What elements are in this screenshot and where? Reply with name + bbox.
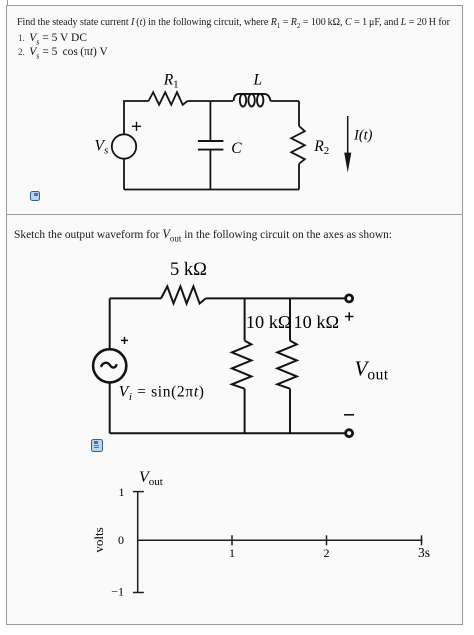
svg-text:2: 2 [324,546,330,560]
svg-text:0: 0 [118,533,124,547]
wire bottom [124,189,299,191]
voltage source Vs [112,134,136,158]
plus sign of Vs [132,122,141,131]
svg-text:volts: volts [91,527,106,552]
wire source to bottom-left corner [109,382,111,433]
problem 1 statement [17,17,467,30]
tick x=1 [231,535,233,545]
section divider [7,214,463,215]
svg-text:Vi = sin(2πt): Vi = sin(2πt) [119,384,205,404]
resistor 10k (right) [277,341,297,389]
wire right side down [298,101,300,126]
resistor 10k (left) [232,341,252,389]
tilde inside AC source [101,363,117,368]
plus sign at output [345,312,354,321]
resistor R2 [291,126,305,164]
wire resistor to top-right terminal [206,297,345,299]
svg-text:Vs: Vs [95,138,109,157]
wire resistor branch 2 top [289,299,291,341]
wire left side down to source [109,299,111,349]
stub of element above card [7,0,8,5]
wire R1 to node A [188,100,211,102]
tick y=1 [133,491,144,493]
wire resistor branch 1 bottom [244,389,246,434]
wire resistor branch 1 top [244,299,246,341]
wire resistor branch 2 bottom [289,389,291,434]
list item 2 [18,46,108,60]
wire bottom-left up to source [123,159,125,190]
wire node A to inductor [210,100,233,102]
tick x=2 [326,535,328,545]
wire R2 to bottom-right corner [298,164,300,190]
AC source Vi [93,349,126,382]
svg-text:Vout: Vout [139,469,163,488]
problem 2 statement [14,227,392,243]
capacitor C [198,141,224,150]
tick x=3 [421,535,423,545]
svg-text:Vout: Vout [355,356,389,383]
svg-text:I(t): I(t) [353,128,373,144]
terminal top-right [346,295,353,302]
svg-text:R2: R2 [313,138,329,157]
wire top-left (circuit 1) [124,101,149,134]
inductor L [234,94,271,107]
icon problem 2 [91,439,103,452]
tick y=-1 [133,592,144,594]
wire bottom [110,432,345,434]
wire capacitor to bottom [209,150,211,189]
svg-text:10 kΩ: 10 kΩ [294,312,340,332]
resistor R1 [149,92,188,105]
current arrow I(t) shaft [347,116,349,154]
svg-text:C: C [231,140,242,157]
graph x-axis [138,539,423,541]
minus sign at output [344,414,354,416]
wire inductor to top-right corner [271,100,300,102]
list item 1 [18,32,87,46]
current arrow I(t) head [344,153,351,173]
svg-text:L: L [253,72,263,89]
svg-text:5 kΩ: 5 kΩ [170,260,207,280]
wire node A down to capacitor [209,101,211,140]
terminal bottom-right [346,430,353,437]
svg-text:−1: −1 [111,585,124,599]
svg-text:R1: R1 [163,72,179,91]
svg-text:1: 1 [229,546,235,560]
svg-text:1: 1 [119,485,125,499]
svg-text:10 kΩ: 10 kΩ [246,312,292,332]
plus sign of Vi [121,337,128,344]
wire top-left (circuit 2) [110,297,161,299]
graph y-axis [137,492,139,593]
svg-text:3s: 3s [418,545,430,560]
resistor 5k [161,286,206,303]
icon problem 1 [30,191,40,201]
